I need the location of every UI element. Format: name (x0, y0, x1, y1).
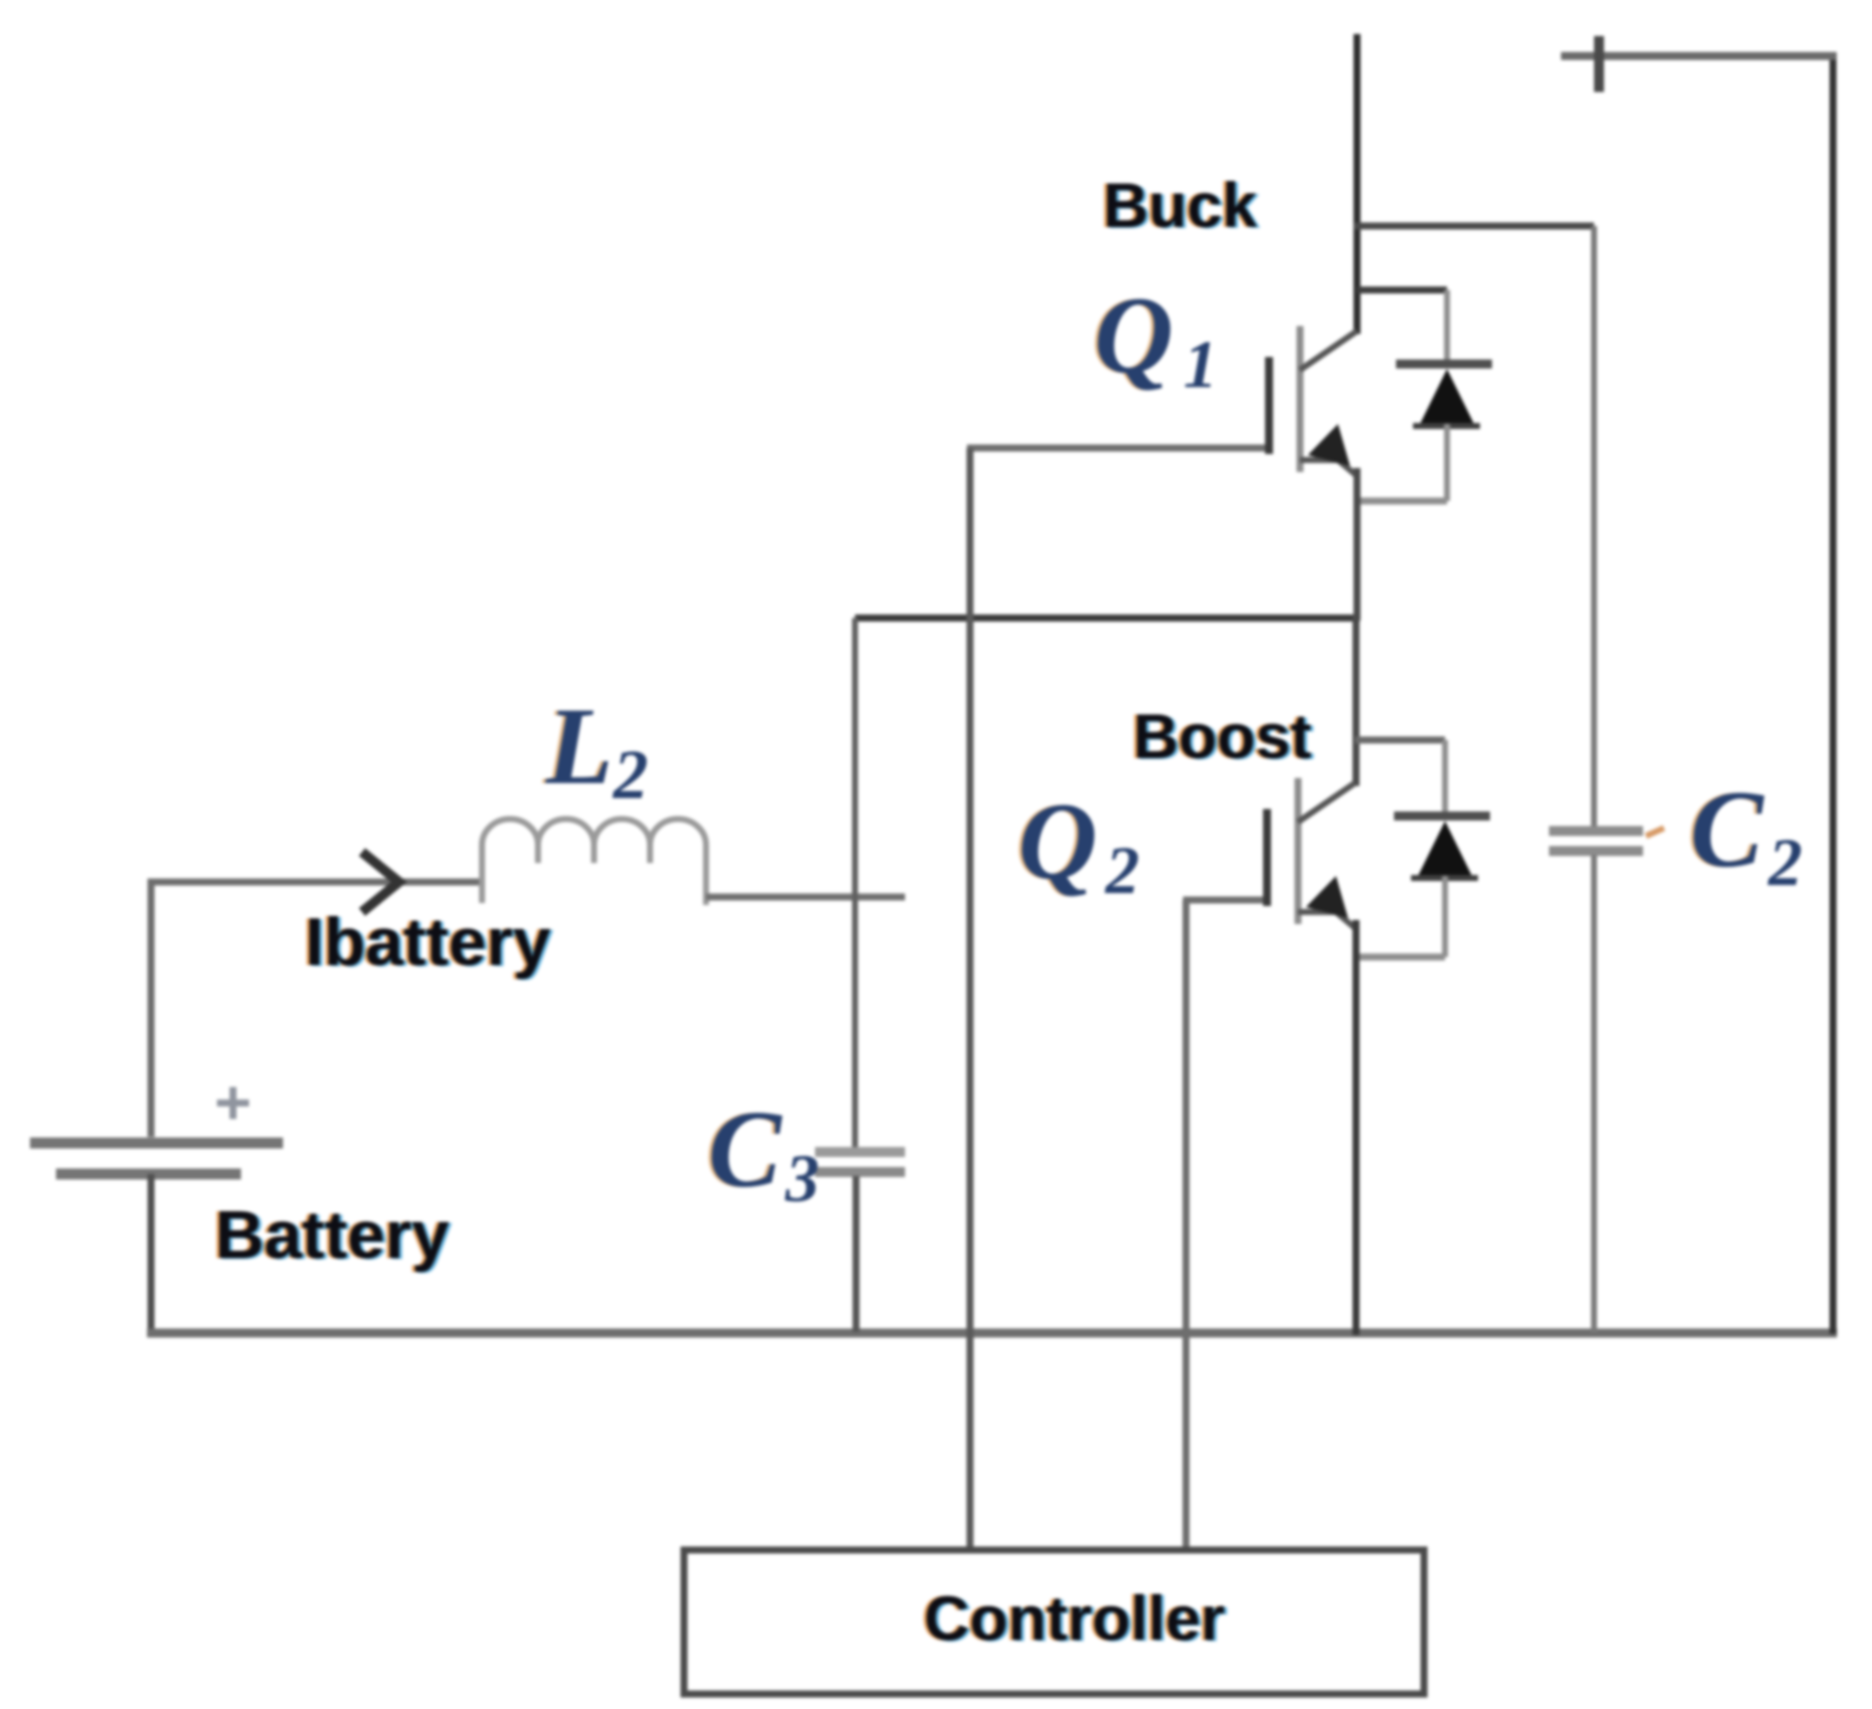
wire mid node to Q2 collector (1353, 616, 1360, 786)
svg-text:Battery: Battery (215, 1197, 449, 1273)
diode D1 (1357, 290, 1492, 501)
wire inductor to C3 node (706, 894, 905, 901)
capacitor C2 (1549, 828, 1664, 851)
wire battery positive to inductor (151, 882, 482, 1137)
wire bottom bus (147, 1329, 1837, 1338)
label Q2 (1015, 780, 1139, 908)
label Battery (212, 1197, 452, 1274)
wire Q2 emitter to bottom bus (1353, 920, 1360, 1335)
wire C2 lower vertical (1591, 855, 1597, 1332)
svg-text:Controller: Controller (924, 1584, 1225, 1654)
label L2 (542, 685, 648, 814)
wire Q2 gate vertical to controller (1183, 900, 1190, 1562)
wire Q1 gate lead (967, 445, 1269, 452)
label Controller (921, 1584, 1228, 1655)
label Buck (1100, 171, 1261, 242)
battery (30, 1143, 283, 1174)
capacitor C3 (815, 1152, 905, 1172)
wire Q1 collector top (1354, 34, 1361, 334)
controller box (684, 1550, 1424, 1694)
svg-text:Buck: Buck (1103, 171, 1258, 241)
wire mid node horizontal (855, 615, 1360, 622)
label Q1 (1091, 274, 1217, 402)
battery plus sign (217, 1087, 249, 1119)
label C3 (705, 1088, 819, 1216)
wire top node to C2 branch (1354, 223, 1594, 230)
wire output top (1561, 52, 1836, 60)
wire C2 upper vertical (1591, 226, 1597, 827)
svg-text:Boost: Boost (1133, 702, 1312, 772)
label C2 (1687, 768, 1802, 900)
current arrow Ibattery (362, 852, 399, 912)
output terminal tick (1594, 36, 1604, 92)
wire C3 lower vertical (853, 1176, 860, 1332)
transistor Q2 (1267, 778, 1355, 928)
wire battery negative (148, 1174, 155, 1336)
inductor L2 (482, 819, 706, 905)
label Ibattery (302, 904, 554, 981)
wire C3 upper vertical (852, 618, 858, 1149)
diode D2 (1355, 740, 1490, 957)
label Boost (1130, 702, 1315, 773)
wire right bus (1830, 52, 1837, 1334)
wire Q2 gate lead (1183, 897, 1267, 904)
wire Q1 gate vertical to controller (967, 448, 974, 1562)
wire Q1 emitter to mid node (1354, 468, 1361, 620)
svg-text:Ibattery: Ibattery (305, 904, 551, 980)
transistor Q1 (1269, 326, 1357, 476)
